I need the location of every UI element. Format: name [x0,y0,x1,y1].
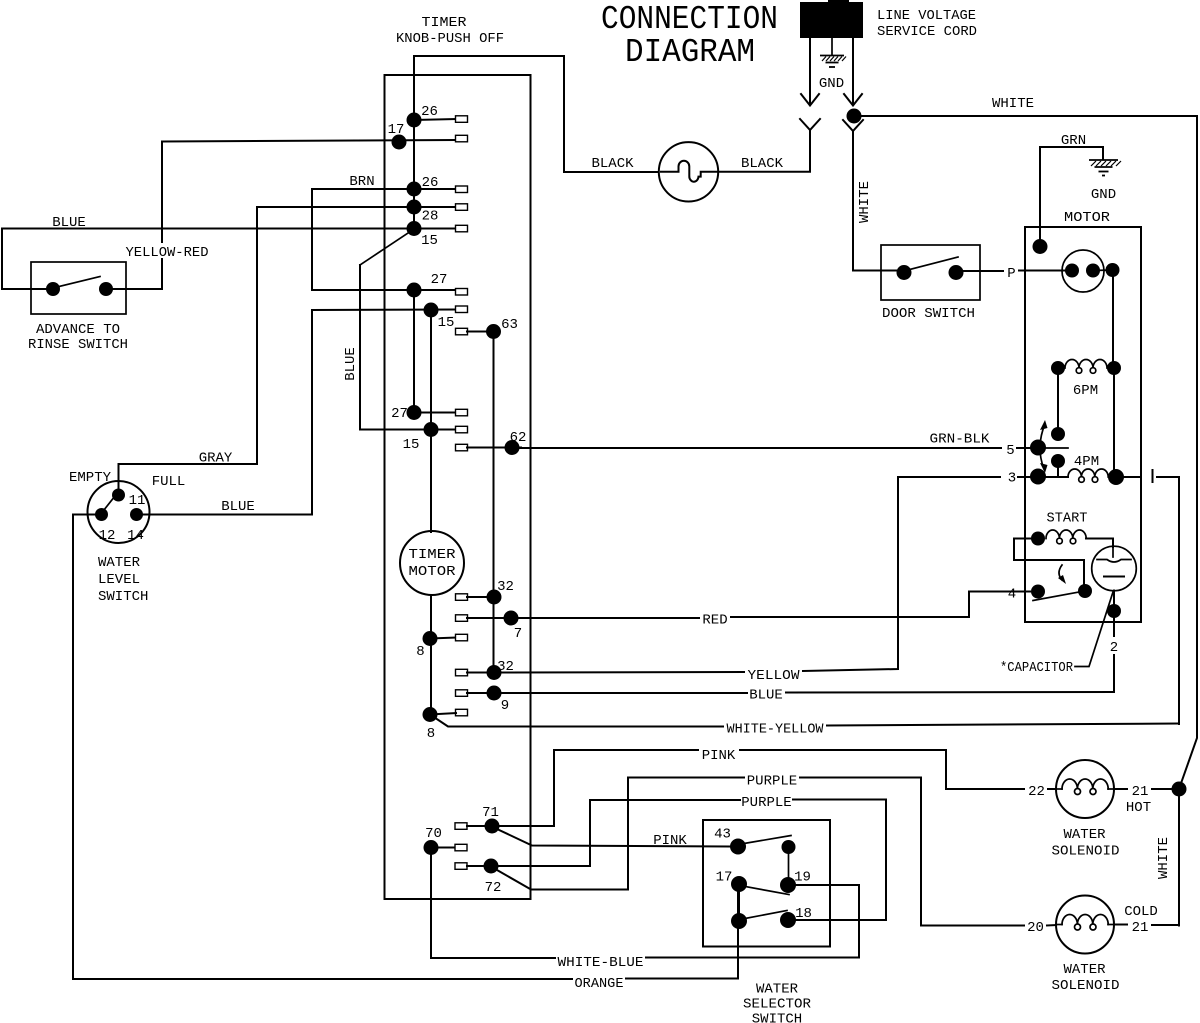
svg-text:62: 62 [510,430,527,446]
svg-text:6PM: 6PM [1073,383,1098,399]
wire 22 stub [1048,788,1056,790]
svg-text:ADVANCE TO: ADVANCE TO [36,322,120,338]
lug contact row15 32b [456,669,468,676]
wire cold 21 to white riser [1152,924,1179,926]
svg-text:SWITCH: SWITCH [752,1012,802,1023]
motor M1 box [1025,227,1141,622]
svg-text:20: 20 [1027,920,1044,936]
wire black filter to plug [718,131,810,172]
wire lug to 63 [467,331,494,333]
wire YELLOW-RED riser [113,142,162,289]
timer bus 27a to 27b [413,290,415,413]
svg-text:27: 27 [391,406,408,422]
svg-text:LEVEL: LEVEL [98,572,140,588]
advance to rinse switch S2 [31,262,126,314]
svg-text:FULL: FULL [152,474,186,490]
node motor frame ground junction [1033,239,1048,254]
wire start bracket [1014,539,1084,586]
svg-text:HOT: HOT [1126,800,1151,816]
switch blade arc at 5 [1040,420,1048,473]
start switch arrow [1058,565,1066,584]
wire gray drop to 11 [118,464,120,490]
node motor pin P contact a [1065,264,1079,278]
node white hot junction [1172,782,1187,797]
wire lug to 32a [467,596,494,598]
wire PURPLE upper run to cold solenoid [497,778,1024,926]
svg-text:8: 8 [427,726,435,742]
svg-text:EMPTY: EMPTY [69,470,112,486]
wire 6PM left leg down [1057,375,1059,428]
wire ORANGE run [73,884,738,979]
wire BLUE water level to 15c riser [143,514,312,516]
svg-text:8: 8 [416,644,424,660]
node 4PM right [1108,469,1124,485]
arrowhead left pin [801,94,819,106]
wire BLUE run to capacitor 2 [502,692,1114,693]
node white junction [847,109,862,124]
wire 17 down to lower contact [738,892,740,913]
wire GRAY 28 row [257,206,456,208]
svg-text:PINK: PINK [702,748,736,764]
wire black knob line from timer [414,56,658,172]
water solenoid hot L1 [1056,760,1114,818]
svg-text:72: 72 [485,880,502,896]
wire BRN 26b row [312,188,456,190]
svg-text:26: 26 [421,104,438,120]
svg-text:DIAGRAM: DIAGRAM [625,34,755,71]
svg-text:GRAY: GRAY [199,451,233,467]
node motor pin P contact b [1086,264,1100,278]
svg-text:WATER: WATER [98,555,141,571]
svg-text:MOTOR: MOTOR [409,564,457,580]
svg-text:YELLOW: YELLOW [748,668,801,684]
svg-text:BRN: BRN [349,174,374,190]
label BLUE vertical [343,344,359,384]
arrowhead right pin [844,94,862,106]
wire 15c row [312,309,456,312]
wire GRN ground lead [1040,147,1103,247]
node timer 15b [424,422,439,437]
wire PINK selector 43 run [497,829,730,847]
label WATER SOLENOID hot [1052,827,1120,860]
lug contact row19 [455,844,467,851]
start switch blade [1033,592,1082,601]
svg-text:*CAPACITOR: *CAPACITOR [1000,660,1074,676]
svg-text:WHITE-BLUE: WHITE-BLUE [558,955,644,971]
svg-text:RED: RED [702,613,727,629]
node timer 17 [392,135,407,150]
wire terminal 1 row [1124,476,1179,478]
svg-text:3: 3 [1008,471,1016,487]
connector P1 line voltage service cord plug [800,0,863,38]
wire hot 21 to white junction [1114,788,1127,790]
wire white down to cold row [1178,796,1180,926]
capacitor C1 [1092,546,1137,591]
node terminal 4 [1031,585,1045,599]
svg-text:70: 70 [425,826,442,842]
label WATER SELECTOR SWITCH [743,982,812,1023]
wire BRN jumper riser [312,189,456,290]
winding START [1031,530,1086,546]
wire 70 riser to white-blue [430,855,432,958]
svg-text:SELECTOR: SELECTOR [743,997,812,1013]
wire 15b to lug [431,429,456,431]
node terminal 5 [1030,440,1046,456]
wire blue riser to 15b [360,265,424,430]
svg-text:BLUE: BLUE [749,688,783,704]
svg-text:KNOB-PUSH OFF: KNOB-PUSH OFF [396,31,504,47]
svg-text:12: 12 [99,528,116,544]
wire YELLOW run to motor 3 [502,477,898,673]
connector receptacle chevron left [800,119,820,130]
svg-text:WATER: WATER [1063,962,1106,978]
svg-text:WHITE: WHITE [992,96,1034,112]
svg-text:WHITE-YELLOW: WHITE-YELLOW [727,722,825,738]
svg-text:43: 43 [714,827,731,843]
title CONNECTION DIAGRAM [601,1,778,71]
wire plug left pin drop [809,38,811,104]
svg-text:P: P [1007,266,1015,282]
node capacitor bottom junction [1107,604,1121,618]
node timer 15a [407,221,422,236]
node selector lower left contact [731,913,747,929]
node motor internal node right of circle [1106,263,1120,277]
wire 17 row [162,140,456,142]
wire WHITE-BLUE run [431,885,859,958]
node timer 26a [407,113,422,128]
node timer 8a [423,631,438,646]
node timer 72 [484,859,499,874]
label WATER SOLENOID cold [1052,962,1120,994]
wire plug ground pin [831,38,833,55]
water solenoid cold L2 [1056,896,1114,954]
svg-text:15: 15 [403,437,420,453]
ground plug GND symbol [820,56,846,68]
wire lug through 9 BLUE start [467,692,502,694]
svg-text:LINE VOLTAGE: LINE VOLTAGE [877,8,976,24]
lug contact row2 [456,135,468,142]
wire capacitor bottom to 2 [1113,591,1115,693]
node timer 32b [487,665,502,680]
wire cold 21 row [1114,924,1127,926]
node terminal 3 [1030,469,1046,485]
wire white riser to door switch [853,131,896,271]
wire WHITE-YELLOW run [430,715,1179,727]
svg-text:26: 26 [422,175,439,191]
wire 15a diagonal to blue riser [360,229,414,265]
svg-text:GRN-BLK: GRN-BLK [930,432,991,448]
wire lug to 8b [430,713,456,715]
svg-text:28: 28 [422,209,439,225]
wire blue left drop to rinse switch [2,229,46,290]
water selector switch S4 box [703,820,830,947]
svg-text:PURPLE: PURPLE [741,795,791,811]
svg-text:GND: GND [1091,187,1116,203]
svg-text:BLUE: BLUE [221,499,255,515]
pin 2 label [1106,637,1122,656]
svg-text:TIMER: TIMER [409,547,457,563]
wire door switch to motor pin P [963,270,1065,273]
svg-text:18: 18 [795,906,812,922]
node timer 7 [504,611,519,626]
node start switch contact [1078,584,1092,598]
node timer 9 [487,686,502,701]
label YELLOW-RED [124,243,210,261]
wire lug to 72 [467,865,491,867]
svg-text:WHITE: WHITE [857,181,873,223]
node timer 62 [505,440,520,455]
lug contact row10 [456,426,468,433]
node timer 70 [424,840,439,855]
wire 21 to junction [1152,788,1172,790]
timer T1 box [385,75,531,899]
node timer 15c [424,303,439,318]
wire motor right bus down to 6PM [1112,270,1114,361]
svg-text:SWITCH: SWITCH [98,589,148,605]
svg-text:SOLENOID: SOLENOID [1052,844,1120,860]
winding 6PM [1051,360,1121,376]
node selector 17 [731,876,747,892]
wire PURPLE lower run to selector 18 [491,800,886,921]
node timer 27a [407,283,422,298]
wire timer motor to 8 bus [430,595,432,715]
svg-text:2: 2 [1110,640,1118,656]
pin 1 label [1152,470,1154,482]
svg-text:63: 63 [501,317,518,333]
svg-text:7: 7 [514,626,522,642]
wire 6PM right leg down [1113,375,1115,470]
svg-text:14: 14 [127,528,144,544]
node timer 63 [486,324,501,339]
svg-text:15: 15 [438,315,455,331]
lug contact row11 62 [456,444,468,451]
lug contact row18 71 [455,823,467,830]
svg-text:GND: GND [819,76,844,92]
wire 8a to lug [430,638,456,639]
node selector 43 right contact [782,840,796,854]
door switch S1 [881,245,980,300]
start switch terminal 4 row RED [519,592,1030,619]
wire 70 to lug [431,847,455,849]
svg-text:ORANGE: ORANGE [575,976,624,992]
wire 20 stub [1047,924,1056,927]
svg-text:SOLENOID: SOLENOID [1052,978,1120,994]
lug contact row12 32a [456,594,468,601]
wire 1 riser down to white-yellow [1178,477,1180,724]
wire terminal 5 stub [1046,447,1068,449]
node timer 27b [407,405,422,420]
svg-text:22: 22 [1028,784,1045,800]
lug contact row17 8b [456,709,468,716]
lug contact row7 [456,306,468,313]
connector receptacle chevron right [843,120,863,131]
timer bus upper [413,75,415,229]
label LINE VOLTAGE SERVICE CORD [877,8,977,40]
ground motor GND symbol [1089,160,1121,176]
wire 15 bus down to timer motor [430,310,432,532]
lug contact row14 [456,634,468,641]
svg-text:17: 17 [388,122,405,138]
node timer 71 [485,819,500,834]
svg-text:5: 5 [1006,443,1014,459]
svg-text:WHITE: WHITE [1156,837,1172,879]
svg-text:COLD: COLD [1124,904,1158,920]
svg-text:17: 17 [716,870,733,886]
wire 43 contact down to 19 [788,854,790,878]
timer bus 63 to 32b [493,332,495,673]
wire lug to 62 and GRN-BLK [467,447,521,449]
wire lug through 7 [467,617,520,619]
wire plug right pin drop [852,38,854,104]
svg-text:PINK: PINK [653,833,687,849]
node timer 32a [487,590,502,605]
selector blade 18 [745,911,787,919]
node switch contact upper 6PM [1051,427,1065,441]
wire lug to 32b YELLOW start [467,672,502,674]
svg-text:32: 32 [497,579,514,595]
node selector 18 [780,912,796,928]
wire GRN-BLK to terminal 5 [520,447,1031,449]
lug contact row3 [456,186,468,193]
svg-text:BLUE: BLUE [343,347,359,381]
svg-text:21: 21 [1132,920,1149,936]
label TIMER KNOB-PUSH OFF [396,15,504,47]
winding 4PM [1068,469,1108,482]
wire lower contact to row 3 [1057,468,1059,476]
node timer 26b [407,182,422,197]
lug contact row16 9 [456,690,468,697]
wire 3 to 4PM [1046,476,1068,478]
noise filter FL1 [659,142,718,201]
wire lug to 71 [467,825,492,827]
lug contact row1 [456,116,468,123]
svg-text:MOTOR: MOTOR [1064,210,1111,226]
lug contact row4 [456,204,468,211]
svg-text:WATER: WATER [1063,827,1106,843]
wire GRAY run [119,207,258,464]
lug contact row13 7 [456,615,468,622]
wire 26a to lug [414,119,456,120]
wire start winding to capacitor [1086,539,1113,548]
node selector 19 [780,877,796,893]
svg-text:BLACK: BLACK [591,156,634,172]
wire PINK run to hot solenoid [492,750,1024,826]
timer motor TM1 [400,531,464,595]
svg-text:SERVICE CORD: SERVICE CORD [877,24,977,40]
wire terminal 3 row [898,476,1031,478]
lug contact row9 [456,409,468,416]
wire contact b to bus [1093,269,1112,272]
svg-text:YELLOW-RED: YELLOW-RED [126,245,209,261]
wire WHITE top run [861,116,1197,789]
svg-text:BLACK: BLACK [741,156,784,172]
svg-text:WATER: WATER [756,982,799,998]
lug contact row8 63 [456,328,468,335]
svg-text:19: 19 [794,870,811,886]
svg-text:11: 11 [129,493,146,509]
svg-text:15: 15 [421,233,438,249]
svg-text:21: 21 [1132,784,1149,800]
svg-text:PURPLE: PURPLE [747,774,797,790]
motor internal centrifugal switch circle [1062,250,1104,292]
svg-text:BLUE: BLUE [52,215,86,231]
wire orange drop from 12 [73,515,95,980]
node switch contact lower 4PM [1051,454,1065,468]
lug contact row5 [456,225,468,232]
node timer 8b [423,707,438,722]
svg-text:4: 4 [1008,587,1016,603]
svg-text:4PM: 4PM [1074,454,1099,470]
svg-text:START: START [1047,511,1088,527]
svg-text:DOOR SWITCH: DOOR SWITCH [882,306,975,322]
label WATER LEVEL SWITCH [98,555,148,605]
node timer 28 [407,200,422,215]
svg-text:TIMER: TIMER [422,15,468,31]
svg-text:27: 27 [431,272,448,288]
selector blade 43 [744,836,791,844]
lug contact row20 72 [455,863,467,870]
svg-text:9: 9 [501,698,509,714]
wire BLUE 15a row [2,228,456,230]
lug contact row6 [456,289,468,296]
wire 15c riser from blue water level [311,310,313,515]
svg-text:RINSE SWITCH: RINSE SWITCH [28,337,128,353]
svg-text:71: 71 [482,805,499,821]
label ADVANCE TO RINSE SWITCH [28,322,128,353]
svg-text:CONNECTION: CONNECTION [601,1,778,38]
wire 27b to lug [414,412,456,414]
label *CAPACITOR with leader [1000,592,1113,676]
selector blade 17 [745,887,789,895]
node selector 43 [730,839,746,855]
water level switch S3 [88,481,150,543]
svg-text:GRN: GRN [1061,133,1086,149]
